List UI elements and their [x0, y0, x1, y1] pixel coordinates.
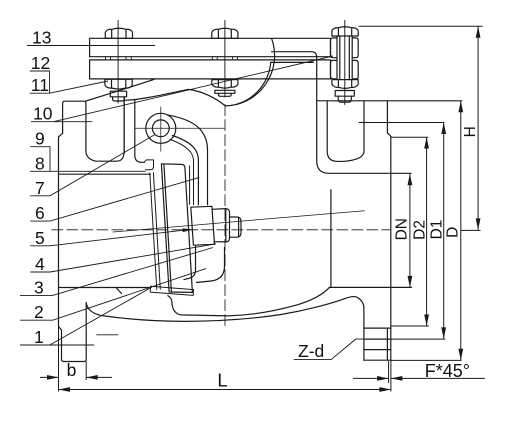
leader 5 arrowhead	[182, 228, 192, 232]
svg-text:2: 2	[34, 302, 44, 322]
body arch line	[124, 39, 274, 106]
b right extension line	[85, 362, 87, 381]
right flange outer edge bottom	[386, 328, 388, 360]
D1 top extension line	[359, 122, 445, 124]
svg-text:6: 6	[35, 203, 45, 223]
D2 dimension line	[426, 137, 428, 326]
body bracket inner right	[327, 101, 364, 162]
svg-text:D2: D2	[412, 220, 429, 240]
rocker arm clamped tongue	[271, 52, 317, 63]
D arrow up	[458, 101, 463, 113]
D1 dimension line	[443, 123, 445, 339]
leader 8 long horizontal	[30, 170, 145, 172]
D2 arrow down	[424, 315, 429, 327]
label 1 leader	[20, 287, 152, 345]
bolt B1 stud end	[113, 97, 125, 101]
body bottom outer shell	[86, 297, 364, 361]
b arrow left-tip	[86, 375, 98, 380]
bolt B2 washer	[215, 90, 235, 93]
svg-text:4: 4	[35, 254, 45, 274]
rocker arm inner second line	[170, 140, 194, 205]
svg-text:H: H	[462, 126, 479, 137]
D arrow down	[458, 349, 463, 361]
svg-text:12: 12	[31, 53, 50, 73]
hinge boss centerline vertical	[160, 107, 162, 151]
disc nut hex (part 3)	[212, 209, 229, 242]
hinge boss centerline horizontal	[135, 127, 225, 129]
right flange bolt hole block	[364, 328, 391, 360]
bolt B3 stud end	[338, 96, 351, 102]
body neck inner-left	[135, 101, 144, 163]
bolt B2 top hex nut	[212, 28, 238, 38]
label 3 leader	[20, 248, 213, 296]
left flange face chamfer bottom	[59, 327, 62, 331]
svg-text:F*45°: F*45°	[425, 361, 470, 381]
svg-text:5: 5	[35, 228, 45, 248]
cover plate upper (part 13)	[90, 38, 331, 56]
F right extension line	[390, 360, 392, 391]
svg-text:13: 13	[32, 28, 51, 48]
label 13 leader	[27, 45, 155, 47]
svg-text:8: 8	[35, 153, 45, 173]
bolt B1 centerline	[117, 21, 119, 104]
bolt B1 top hex nut	[105, 28, 132, 38]
bolt B3 top hex nut	[332, 27, 358, 36]
bolt B2 stud end	[219, 93, 232, 96]
b dimension line right	[86, 376, 112, 378]
bore bottom line right	[329, 286, 411, 288]
disc holder edge	[189, 166, 191, 204]
D dimension line	[460, 101, 462, 360]
rocker arm upper edge	[86, 79, 154, 101]
body neck outer-left	[123, 100, 125, 153]
b left extension line	[58, 327, 60, 392]
DN arrow up	[408, 174, 413, 186]
D bottom extension line	[391, 359, 462, 361]
disc plate	[161, 164, 192, 293]
F arrow left-tip	[391, 376, 403, 381]
body top face right with extension to D line	[317, 100, 462, 102]
bolt B3 lower hex nut	[332, 80, 358, 89]
H bottom reference tick	[461, 229, 481, 231]
F dimension line right	[391, 377, 485, 379]
svg-text:9: 9	[35, 129, 45, 149]
bolt B2 lower hex nut	[212, 80, 238, 89]
right flange gasket face	[390, 136, 392, 360]
D2 top extension line	[391, 136, 429, 138]
label 11 leader	[30, 81, 108, 93]
L dimension line	[59, 389, 391, 391]
sump inner line	[168, 288, 329, 316]
bolt B1 washer	[110, 91, 126, 97]
left flange face	[58, 137, 60, 327]
svg-text:DN: DN	[394, 218, 411, 240]
svg-text:D: D	[445, 227, 462, 238]
label 9 bracket	[30, 147, 50, 172]
svg-text:Z-d: Z-d	[298, 341, 324, 361]
hinge pin circle	[152, 120, 169, 137]
b arrow right-tip	[47, 375, 59, 380]
svg-text:10: 10	[33, 104, 53, 124]
body bracket outer right	[317, 57, 411, 173]
vertical centerline dashed	[224, 105, 226, 327]
DN dimension line	[409, 174, 411, 288]
svg-text:3: 3	[34, 277, 44, 297]
horizontal bore centerline dashed	[52, 229, 390, 231]
rocker arm elbow inner	[173, 136, 199, 205]
right flange outer edge top	[387, 101, 390, 137]
label 6 leader	[30, 177, 199, 221]
disc bottom foot	[150, 286, 193, 295]
F left extension line	[388, 361, 390, 383]
D1 arrow down	[441, 327, 446, 339]
svg-text:7: 7	[35, 178, 45, 198]
cover plate lower	[90, 60, 331, 79]
seat counterbore corner	[116, 288, 122, 294]
left flange bottom tab (part 1)	[62, 304, 87, 362]
hinge boss circle	[146, 113, 176, 143]
bolt B3 centerline	[344, 20, 346, 104]
svg-text:b: b	[67, 360, 77, 380]
Z-d leader	[294, 339, 365, 360]
L arrow right end	[379, 387, 391, 392]
disc holder boot outer	[197, 247, 225, 282]
D2 bottom extension line	[391, 325, 429, 327]
label 12 bracket	[30, 71, 50, 93]
svg-text:L: L	[217, 370, 227, 391]
F dimension line left	[353, 377, 389, 379]
washer ticks between plates at bolt B2	[212, 57, 237, 60]
svg-text:11: 11	[31, 75, 49, 95]
svg-text:D1: D1	[429, 220, 446, 240]
svg-text:1: 1	[34, 327, 44, 347]
label 2 leader	[20, 269, 206, 321]
bore top line	[59, 173, 151, 175]
inner shell left lip	[144, 160, 153, 170]
seat ring vertical right	[330, 190, 332, 288]
bonnet flange right edge	[363, 101, 365, 153]
label 10 leader	[31, 56, 333, 122]
label 5 leader	[30, 230, 183, 246]
DN arrow down	[408, 276, 413, 288]
bolt B1 lower hex nut	[105, 79, 132, 89]
D1 bottom extension line	[391, 338, 446, 340]
body top-left flange tab (part 10)	[63, 97, 125, 161]
H arrow up	[476, 26, 481, 38]
bolt B3 shank and clamp tabs	[337, 36, 352, 79]
bolt B3 washer	[335, 91, 354, 97]
bore bottom line left	[59, 287, 151, 289]
rocker arm elbow outer	[167, 115, 208, 205]
H arrow down	[476, 218, 481, 230]
left flange face chamfer top	[59, 133, 63, 137]
label 4 leader	[30, 244, 216, 272]
disc stem cap	[230, 217, 242, 237]
H top extension line	[359, 25, 483, 27]
disc holder block	[191, 206, 215, 245]
L arrow left end	[59, 387, 71, 392]
rocker arm inner curve	[236, 62, 271, 104]
disc seal ring lines	[150, 173, 161, 290]
H dimension line	[477, 26, 479, 230]
b dimension line left	[40, 376, 59, 378]
D2 arrow up	[424, 137, 429, 149]
disc stem axis line	[113, 211, 365, 232]
label 7 leader	[30, 135, 155, 196]
disc holder boot inner	[184, 246, 196, 279]
bolt B2 centerline	[224, 21, 226, 98]
F arrow right-tip	[377, 376, 389, 381]
D1 arrow up	[441, 123, 446, 135]
washer ticks between plates at bolt B1	[106, 57, 132, 60]
